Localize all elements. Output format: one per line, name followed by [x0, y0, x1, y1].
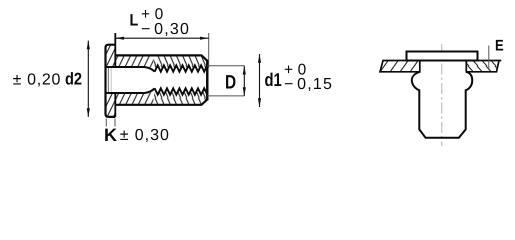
svg-text:K: K — [104, 125, 117, 145]
right plate hatch — [466, 61, 499, 72]
section hatch upper flange + smooth wall — [106, 45, 154, 70]
svg-text:d2: d2 — [65, 70, 82, 89]
svg-text:L: L — [130, 12, 139, 30]
flange right face line — [114, 33, 116, 117]
svg-text:±0,20: ±0,20 — [13, 72, 62, 89]
thread zigzag top — [155, 65, 208, 71]
section hatch upper thread wall — [154, 55, 208, 71]
dimension line L — [115, 37, 208, 40]
K extension lines — [105, 119, 107, 127]
svg-text:±0,30: ±0,30 — [120, 127, 170, 144]
section hatch lower thread wall — [154, 88, 208, 105]
bore chamfer line at flange — [107, 67, 109, 93]
D extension lines — [207, 65, 244, 67]
flange (installed) — [407, 52, 478, 61]
dimension line D — [243, 66, 246, 96]
dimension line d2 — [87, 41, 90, 117]
body end face line — [206, 60, 208, 101]
svg-text:D: D — [225, 72, 236, 94]
dimension line d1 — [258, 54, 261, 107]
dimension L extension line right — [208, 33, 210, 68]
svg-text:−0,15: −0,15 — [284, 76, 333, 93]
svg-text:E: E — [495, 38, 504, 55]
thread zigzag bottom — [155, 88, 208, 94]
left plate outline — [380, 61, 420, 72]
bulge + body outline — [412, 72, 472, 138]
E reference line — [488, 46, 490, 71]
bore top line — [106, 67, 155, 72]
svg-text:−0,30: −0,30 — [141, 21, 190, 38]
bore chamfer inner line — [110, 68, 112, 93]
section hatch lower flange + smooth wall — [106, 90, 154, 117]
left plate hatch — [380, 61, 420, 72]
right plate outline — [466, 61, 501, 72]
svg-text:d1: d1 — [265, 69, 282, 90]
bore bottom line — [106, 88, 155, 93]
center line — [441, 44, 443, 146]
flange outline — [106, 45, 116, 117]
body outline — [115, 55, 207, 104]
